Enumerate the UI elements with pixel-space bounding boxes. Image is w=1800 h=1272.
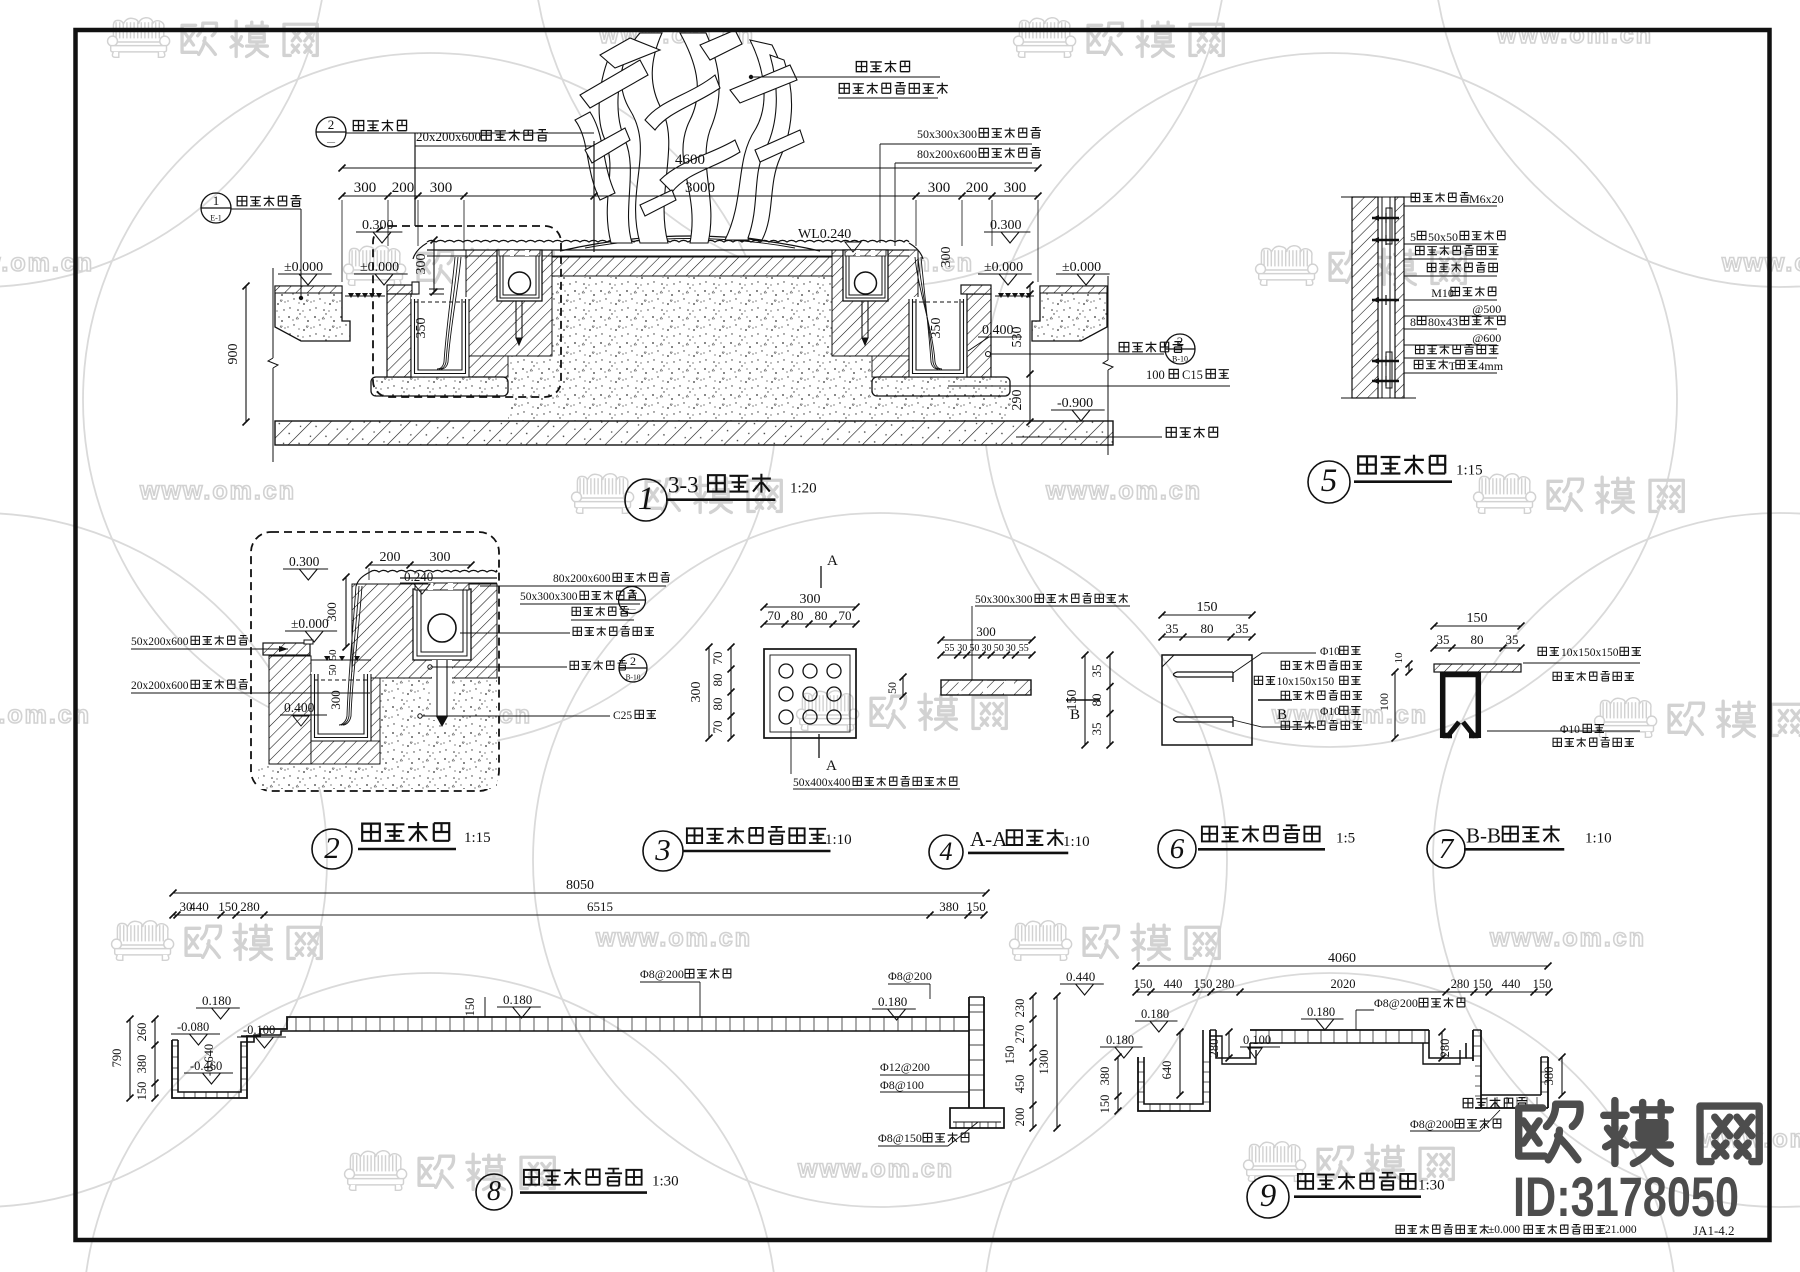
svg-text:@600: @600: [1472, 331, 1501, 345]
column footing: [950, 1108, 1004, 1128]
speckle regions: [380, 678, 497, 788]
bottom note: [1396, 1225, 1404, 1233]
figure 6 : embed plate: [1162, 655, 1252, 745]
svg-text:±0.000: ±0.000: [284, 260, 323, 275]
svg-text:JA1-4.2: JA1-4.2: [1693, 1223, 1735, 1238]
planting mound: [560, 236, 820, 251]
svg-text:80: 80: [710, 674, 725, 687]
svg-text:0.180: 0.180: [202, 993, 231, 1008]
stone panel: [1395, 197, 1404, 398]
svg-text:290: 290: [1010, 390, 1025, 411]
water channel marks: [348, 293, 354, 298]
waterfall: [339, 586, 356, 725]
svg-text:±0.000: ±0.000: [984, 260, 1023, 275]
svg-text:440: 440: [189, 899, 209, 914]
right supply trough: [843, 250, 888, 301]
svg-text:300: 300: [414, 254, 429, 275]
svg-text:Φ8@200: Φ8@200: [1410, 1117, 1454, 1131]
svg-text:0.240: 0.240: [404, 569, 433, 584]
fig7 labels: [1538, 647, 1546, 655]
svg-text:±0.000: ±0.000: [1488, 1224, 1520, 1236]
svg-text:www.om.cn: www.om.cn: [1489, 924, 1646, 952]
fig6 dims: [1162, 614, 1252, 616]
svg-text:300: 300: [324, 602, 339, 622]
svg-text:B: B: [1277, 707, 1287, 723]
big brand logo: [1519, 1101, 1760, 1164]
fig2 dims: [369, 564, 471, 566]
svg-text:50x300x300: 50x300x300: [520, 591, 578, 603]
title 7: [1427, 830, 1465, 868]
watermark logos: [108, 18, 170, 58]
svg-text:80: 80: [1201, 621, 1214, 636]
svg-text:200: 200: [392, 180, 415, 196]
svg-text:380: 380: [135, 1055, 149, 1074]
svg-text:150: 150: [1098, 1095, 1112, 1114]
fig1 dashed detail box: [373, 226, 561, 397]
dim 530/290: [1029, 285, 1031, 422]
svg-text:150: 150: [1197, 600, 1218, 615]
fig1 dimension line 300/200/300/3000: [342, 195, 1038, 197]
left pool wall: [387, 294, 411, 377]
hatched cover strip: [941, 680, 1031, 695]
svg-text:4600: 4600: [675, 152, 705, 168]
dashed detail box: [251, 532, 499, 791]
svg-text:440: 440: [1502, 977, 1521, 991]
fig3 dims: [764, 606, 856, 608]
svg-text:10: 10: [1393, 652, 1405, 664]
steel channel: [1440, 672, 1481, 678]
paving lines: [427, 249, 909, 251]
svg-text:M6x20: M6x20: [1469, 192, 1504, 206]
trough lining: [311, 672, 371, 741]
svg-text:1:10: 1:10: [825, 832, 852, 848]
svg-text:Φ8@200: Φ8@200: [888, 969, 932, 983]
leader vertical: [593, 141, 595, 252]
svg-text:150: 150: [463, 998, 477, 1017]
dim 900: [245, 286, 247, 422]
wall profile 2: [1138, 1030, 1210, 1111]
svg-text:35: 35: [1506, 632, 1519, 647]
svg-text:www.om.cn: www.om.cn: [797, 1155, 954, 1183]
svg-text:200: 200: [1013, 1108, 1027, 1127]
svg-text:380: 380: [1542, 1067, 1556, 1086]
hatch trough right wall: [362, 678, 380, 764]
wall profile: [172, 1017, 969, 1098]
left footing: [371, 377, 508, 396]
svg-text:www.om.cn: www.om.cn: [595, 924, 752, 952]
svg-text:200: 200: [966, 180, 989, 196]
svg-text:640: 640: [1160, 1061, 1174, 1080]
svg-text:1300: 1300: [1037, 1050, 1051, 1075]
supply box: [413, 589, 471, 660]
svg-text:www.om.cn: www.om.cn: [1721, 249, 1800, 277]
svg-text:280: 280: [1216, 977, 1235, 991]
svg-text:50: 50: [969, 643, 979, 654]
svg-text:www.om.cn: www.om.cn: [139, 477, 296, 505]
svg-text:1:15: 1:15: [464, 830, 491, 846]
svg-text:80x200x600: 80x200x600: [553, 573, 611, 585]
svg-text:-0.900: -0.900: [1057, 396, 1093, 411]
svg-text:80: 80: [815, 608, 828, 623]
svg-text:0.180: 0.180: [878, 994, 907, 1009]
svg-text:35: 35: [1437, 632, 1450, 647]
svg-text:3-3: 3-3: [668, 473, 699, 498]
svg-text:150: 150: [1134, 977, 1153, 991]
svg-text:-0.080: -0.080: [177, 1020, 209, 1034]
right footing: [872, 377, 1010, 396]
B marks: [1066, 699, 1100, 701]
right pool coping stone: [961, 285, 991, 294]
svg-text:B: B: [1070, 707, 1080, 723]
svg-text:E-1: E-1: [210, 213, 222, 222]
svg-text:450: 450: [1013, 1075, 1027, 1094]
title 8: [476, 1174, 512, 1210]
svg-text:Φ10: Φ10: [1320, 706, 1340, 718]
svg-text:A-A: A-A: [970, 827, 1008, 851]
title 1: [625, 479, 667, 521]
svg-text:0.300: 0.300: [362, 218, 394, 233]
svg-text:B-B: B-B: [1466, 823, 1501, 847]
left U rebar ticks: [172, 1045, 178, 1047]
svg-text:150: 150: [218, 899, 238, 914]
svg-text:6515: 6515: [587, 899, 613, 914]
fig4 dims: [941, 639, 1032, 641]
svg-text:50: 50: [327, 664, 339, 676]
svg-text:1:5: 1:5: [1336, 830, 1355, 846]
svg-text:150: 150: [1467, 611, 1488, 626]
svg-text:50x400x400: 50x400x400: [793, 777, 851, 789]
fig7 dims: [1434, 625, 1521, 627]
svg-text:1:10: 1:10: [1063, 834, 1090, 850]
left trough lining: [411, 297, 469, 377]
svg-text:@500: @500: [1472, 302, 1501, 316]
fig8 dim row2: [173, 914, 984, 916]
hatch left wall: [269, 656, 311, 764]
svg-text:0.400: 0.400: [284, 700, 315, 715]
svg-text:35: 35: [1236, 621, 1249, 636]
svg-text:70: 70: [839, 608, 852, 623]
svg-text:150: 150: [135, 1082, 149, 1101]
svg-text:50: 50: [994, 643, 1004, 654]
water marks: [324, 656, 330, 661]
svg-text:WL0.240: WL0.240: [798, 227, 851, 242]
svg-text:280: 280: [1207, 1039, 1221, 1058]
sculpture: [621, 33, 669, 243]
hatch top band: [352, 584, 497, 678]
figure 5 : dry hang detail: [1341, 197, 1416, 398]
svg-text:1: 1: [213, 193, 220, 208]
svg-text:4: 4: [940, 837, 953, 866]
svg-text:300: 300: [430, 550, 451, 565]
right pool wall: [967, 294, 991, 377]
fig5 labels: [1404, 205, 1497, 207]
title 2: [312, 829, 352, 869]
svg-text:440: 440: [1164, 977, 1183, 991]
anchors: [1372, 217, 1399, 220]
svg-text:30: 30: [1006, 643, 1016, 654]
svg-text:300: 300: [430, 180, 453, 196]
svg-text:10x150x150: 10x150x150: [1277, 676, 1335, 688]
figure 1 : 3-3 section: [275, 30, 1113, 445]
svg-text:www.om.cn: www.om.cn: [1496, 21, 1653, 49]
hatched paving strip center: [552, 257, 832, 276]
left pool coping stone: [387, 285, 417, 294]
svg-text:2: 2: [328, 117, 335, 132]
svg-text:3: 3: [654, 832, 671, 867]
svg-text:50: 50: [327, 649, 339, 661]
svg-text:0.180: 0.180: [1307, 1005, 1335, 1019]
svg-text:80: 80: [710, 698, 725, 711]
right trough lining: [909, 297, 967, 377]
figure 3 : cover plan: [764, 649, 856, 738]
svg-text:9: 9: [1260, 1178, 1277, 1214]
svg-text:270: 270: [1013, 1025, 1027, 1044]
projection line right: [1107, 276, 1109, 360]
fig9 dim 4060: [1136, 965, 1548, 967]
svg-text:21.000: 21.000: [1605, 1224, 1637, 1236]
water surface wavy line: [427, 240, 909, 242]
svg-text:300: 300: [800, 592, 821, 607]
svg-text:-0.100: -0.100: [243, 1023, 275, 1037]
svg-text:4mm: 4mm: [1478, 359, 1503, 373]
svg-text:380: 380: [939, 899, 959, 914]
right waterfall: [921, 257, 938, 369]
garage roof slab: [275, 421, 1113, 445]
label pool callout: [1119, 342, 1129, 351]
fig9 dim row2: [1136, 991, 1549, 993]
svg-text:5: 5: [1321, 463, 1338, 499]
svg-text:30: 30: [982, 643, 992, 654]
hatch bottom: [311, 741, 380, 764]
svg-text:±0.000: ±0.000: [1062, 260, 1101, 275]
svg-text:A: A: [827, 553, 838, 569]
title 5: [1308, 461, 1350, 503]
hidden figure label: [1463, 1098, 1473, 1107]
svg-text:0.400: 0.400: [982, 323, 1014, 338]
svg-text:2: 2: [1177, 334, 1184, 349]
svg-text:0.100: 0.100: [1243, 1033, 1271, 1047]
svg-text:35: 35: [1089, 665, 1104, 678]
svg-text:50: 50: [885, 682, 899, 694]
svg-text:150: 150: [966, 899, 986, 914]
svg-text:8: 8: [1410, 315, 1416, 329]
svg-text:www.om.cn: www.om.cn: [1045, 477, 1202, 505]
svg-text:50x200x600: 50x200x600: [131, 636, 189, 648]
svg-text:Φ10: Φ10: [1320, 646, 1340, 658]
left supply trough: [497, 250, 542, 301]
svg-text:70: 70: [710, 652, 725, 665]
svg-text:1:20: 1:20: [790, 481, 817, 497]
svg-text:B-10: B-10: [1172, 354, 1188, 363]
deck wavy: [370, 570, 497, 572]
svg-text:2: 2: [630, 654, 636, 668]
svg-text:1:30: 1:30: [652, 1174, 679, 1190]
svg-text:260: 260: [135, 1023, 149, 1042]
svg-text:300: 300: [354, 180, 377, 196]
callout 2 detail: [316, 117, 346, 147]
fig1 dimension line 4600: [342, 167, 1038, 169]
svg-text:1:10: 1:10: [1585, 830, 1612, 846]
svg-text:80: 80: [1471, 632, 1484, 647]
svg-text:8: 8: [487, 1176, 501, 1207]
right platform: [1032, 286, 1107, 341]
title 4: [929, 835, 963, 869]
svg-text:20x200x600: 20x200x600: [131, 680, 189, 692]
slab rebar ticks: [295, 1017, 297, 1031]
svg-text:Φ12@200: Φ12@200: [880, 1060, 930, 1074]
svg-text:C15: C15: [1182, 368, 1203, 382]
svg-text:30: 30: [957, 643, 967, 654]
svg-text:55: 55: [1019, 643, 1029, 654]
svg-text:8050: 8050: [566, 878, 594, 893]
svg-text:C25: C25: [613, 710, 632, 722]
svg-text:150: 150: [1003, 1046, 1017, 1065]
svg-text:50x300x300: 50x300x300: [975, 594, 1033, 606]
svg-text:Φ8@200: Φ8@200: [640, 967, 684, 981]
svg-text:35: 35: [1166, 621, 1179, 636]
svg-text:4060: 4060: [1328, 951, 1356, 966]
figure 7 : B-B section: [1434, 664, 1521, 738]
svg-text:790: 790: [110, 1049, 124, 1068]
svg-text:300: 300: [689, 682, 704, 703]
A-A section marks: [820, 566, 822, 588]
svg-text:6: 6: [1170, 833, 1185, 865]
svg-text:0.180: 0.180: [1106, 1033, 1134, 1047]
callout 1 platform: [201, 193, 231, 223]
label garage slab: [1166, 428, 1176, 438]
svg-text:200: 200: [380, 550, 401, 565]
svg-text:3000: 3000: [685, 180, 715, 196]
svg-text:2020: 2020: [1331, 977, 1356, 991]
svg-text:1: 1: [638, 481, 655, 517]
hatched wall right trough: [832, 250, 918, 356]
svg-text:Φ8@150: Φ8@150: [878, 1131, 922, 1145]
svg-text:7: 7: [1439, 833, 1455, 865]
fig8 left dims: [154, 1019, 156, 1098]
svg-text:-0.640: -0.640: [202, 1044, 216, 1076]
svg-text:1:30: 1:30: [1418, 1178, 1445, 1194]
svg-text:900: 900: [226, 344, 241, 365]
svg-text:±0.000: ±0.000: [360, 260, 399, 275]
svg-text:1:15: 1:15: [1456, 463, 1483, 479]
svg-text:230: 230: [1013, 999, 1027, 1018]
svg-text:0.300: 0.300: [289, 554, 320, 569]
svg-text:100: 100: [1377, 693, 1391, 711]
svg-text:2: 2: [324, 830, 340, 865]
svg-text:Φ8@100: Φ8@100: [880, 1078, 924, 1092]
svg-text:300: 300: [928, 180, 951, 196]
svg-text:350: 350: [414, 318, 429, 339]
svg-text:300: 300: [1004, 180, 1027, 196]
svg-text:B-10: B-10: [626, 673, 641, 682]
break lines: [1341, 196, 1416, 198]
svg-text:80: 80: [791, 608, 804, 623]
svg-text:3: 3: [629, 586, 635, 600]
left platform: [275, 286, 350, 341]
projection line left: [272, 268, 274, 358]
svg-text:280: 280: [240, 899, 260, 914]
hatched wall left trough: [466, 250, 552, 356]
top plate: [1434, 664, 1521, 672]
svg-text:35: 35: [1089, 723, 1104, 736]
svg-text:5: 5: [1410, 230, 1416, 244]
hatch below left lining: [406, 356, 508, 377]
svg-text:300: 300: [976, 624, 996, 639]
cavity lines: [1381, 197, 1383, 398]
fig3 label below: [790, 727, 792, 774]
figure 2 : detail: [251, 532, 499, 791]
hatch below right lining: [872, 356, 975, 377]
title 6: [1158, 830, 1196, 868]
svg-text:0.300: 0.300: [990, 218, 1022, 233]
svg-text:0.180: 0.180: [503, 992, 532, 1007]
svg-text:Φ8@200: Φ8@200: [1374, 996, 1418, 1010]
svg-text:0.180: 0.180: [1141, 1007, 1169, 1021]
svg-text:20x200x600: 20x200x600: [416, 129, 481, 144]
svg-text:80x43: 80x43: [1428, 315, 1458, 329]
svg-text:—: —: [326, 137, 336, 146]
svg-text:www.om.cn: www.om.cn: [0, 249, 94, 277]
fig8 dim 8050: [173, 892, 986, 894]
svg-text:50x50: 50x50: [1428, 230, 1458, 244]
coping stone: [263, 643, 310, 655]
svg-text:150: 150: [1533, 977, 1552, 991]
fig8 right dims: [1032, 996, 1034, 1128]
svg-text:280: 280: [1451, 977, 1470, 991]
svg-text:380: 380: [1098, 1067, 1112, 1086]
svg-text:70: 70: [710, 721, 725, 734]
svg-text:55: 55: [944, 643, 954, 654]
svg-text:80x200x600: 80x200x600: [917, 147, 977, 161]
concrete mass: [508, 277, 1011, 421]
svg-text:350: 350: [929, 318, 944, 339]
svg-text:10x150x150: 10x150x150: [1561, 647, 1619, 659]
left waterfall: [437, 257, 455, 369]
svg-text:530: 530: [1010, 327, 1025, 348]
title 9: [1247, 1176, 1289, 1218]
svg-text:150: 150: [1473, 977, 1492, 991]
title 3: [643, 831, 683, 871]
svg-text:300: 300: [939, 247, 954, 268]
svg-text:150: 150: [1194, 977, 1213, 991]
svg-text:100: 100: [1146, 368, 1165, 382]
svg-text:50x300x300: 50x300x300: [917, 127, 977, 141]
svg-text:A: A: [826, 758, 837, 774]
right column: [968, 997, 970, 1108]
svg-text:Φ10: Φ10: [1560, 724, 1580, 736]
svg-text:70: 70: [768, 608, 781, 623]
svg-text:0.440: 0.440: [1066, 969, 1095, 984]
svg-text:ID:3178050: ID:3178050: [1513, 1165, 1739, 1228]
wall hatch: [1352, 197, 1378, 398]
label sculpture: [856, 62, 866, 72]
